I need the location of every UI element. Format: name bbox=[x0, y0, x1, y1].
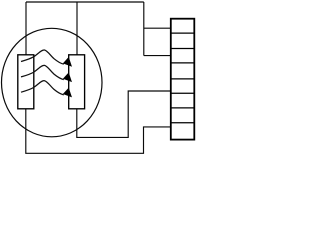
wire mid drop to anode bbox=[76, 2, 78, 55]
resistor stack dividers bbox=[171, 33, 195, 123]
wire tap1 to stack bbox=[144, 27, 171, 29]
anode plate bbox=[69, 55, 85, 109]
wire left drop to cathode bbox=[25, 2, 27, 55]
wire cathode bottom loop bbox=[26, 109, 171, 154]
resistor stack outer bbox=[171, 19, 195, 140]
photon arrow 2 bbox=[21, 65, 72, 81]
cathode plate bbox=[18, 55, 34, 109]
photon arrow 3 bbox=[21, 81, 72, 97]
wire top bus bbox=[26, 1, 144, 3]
photon arrow 1 bbox=[21, 50, 72, 66]
wire tap2 to stack bbox=[144, 55, 171, 57]
wire anode bottom loop bbox=[77, 91, 171, 137]
envelope circle bbox=[2, 28, 103, 137]
wire right drop bbox=[143, 2, 145, 56]
